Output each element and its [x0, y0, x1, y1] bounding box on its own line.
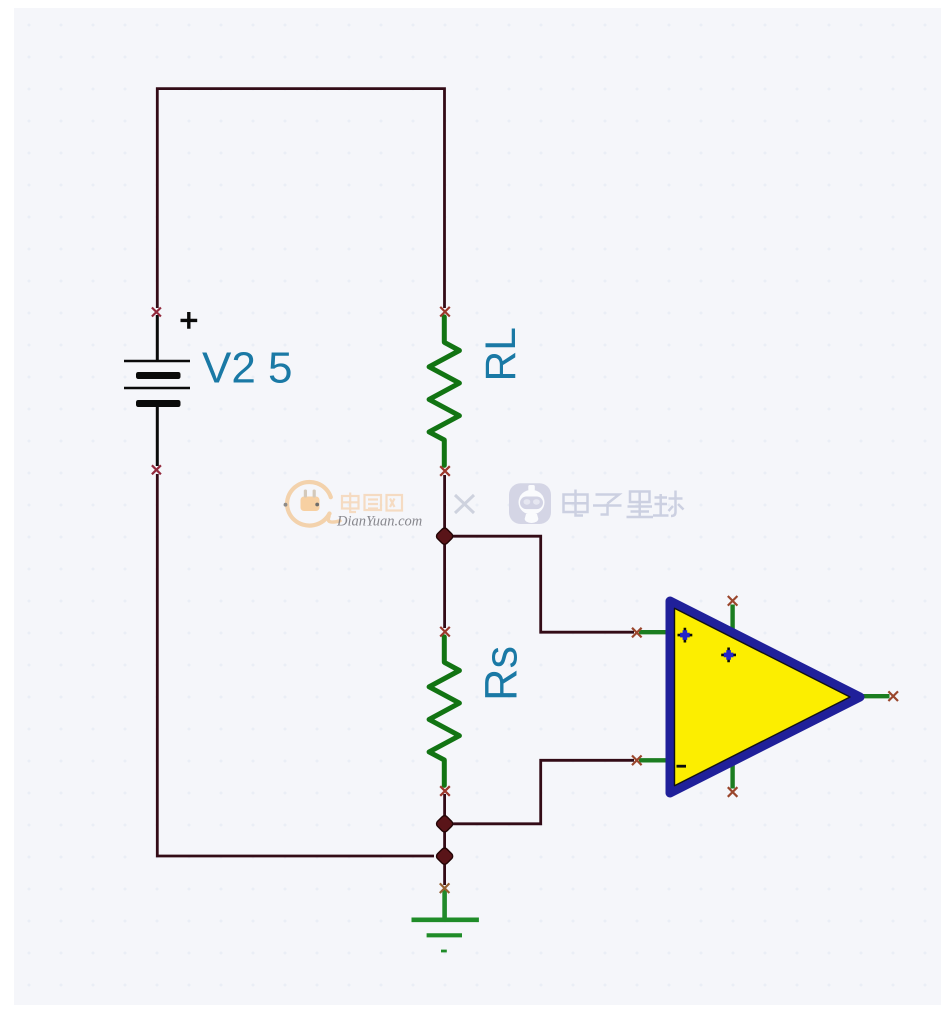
svg-text:DianYuan.com: DianYuan.com — [336, 514, 422, 530]
pin cross RL bottom — [440, 466, 450, 476]
wire: RL bottom to node A — [443, 475, 446, 536]
wire: Rs bottom to node B — [443, 794, 446, 824]
battery V2 lead top — [156, 315, 159, 361]
svg-text:V2 5: V2 5 — [202, 344, 293, 393]
pin cross op-amp top — [728, 596, 738, 606]
pin cross RL top — [440, 307, 450, 317]
resistor Rs — [429, 637, 459, 786]
pin cross op-amp + input — [632, 628, 642, 638]
node B junction dot — [435, 814, 454, 833]
watermark dianyuan plug icon — [284, 490, 320, 512]
wire: node B to node C — [443, 824, 446, 856]
battery plus sign — [181, 312, 198, 329]
wire: node A right and down to op-amp + input — [445, 536, 634, 632]
pin cross battery top — [152, 308, 161, 317]
pin cross output — [888, 691, 898, 701]
op-amp U1 pin V- bottom stub — [730, 762, 734, 789]
battery V2 lead bottom — [156, 407, 159, 466]
wire: node C down to ground — [443, 856, 446, 885]
wire: node A down to Rs top — [443, 536, 446, 628]
op-amp U1 pin + input stub — [639, 630, 669, 634]
ground bar 1 — [412, 917, 479, 922]
pin cross Rs bottom — [440, 786, 450, 796]
watermark dianzixingqiu app icon — [509, 483, 551, 524]
op-amp U1 pin V+ top stub — [730, 605, 734, 633]
op-amp U1 output stub — [860, 694, 890, 698]
watermark dianyuan chinese chars — [342, 493, 402, 513]
pin cross battery bottom — [152, 465, 161, 474]
watermark dianyuan ring — [287, 482, 340, 526]
op-amp U1 - input marker — [677, 765, 687, 768]
watermark grey cross — [455, 495, 474, 513]
op-amp U1 + input marker — [678, 628, 693, 643]
ground bar 2 — [427, 933, 462, 937]
wire: top loop (battery top to RL top) — [157, 89, 444, 308]
pin cross Rs top — [440, 627, 450, 637]
battery V2 plates — [124, 361, 190, 407]
ground bar 3 — [441, 950, 447, 953]
ground lead — [442, 889, 447, 918]
pin cross op-amp bottom — [728, 787, 738, 797]
node A junction dot — [435, 527, 454, 546]
wire: node B right and up to op-amp - input — [445, 760, 634, 824]
pin cross ground — [440, 883, 450, 893]
op-amp U1 triangle body — [670, 601, 860, 793]
op-amp U1 pin - input stub — [639, 758, 669, 762]
wire: battery bottom down and right to ground junction — [157, 474, 434, 856]
op-amp U1 inner outline — [675, 608, 851, 785]
svg-text:Rs: Rs — [476, 646, 527, 701]
op-amp U1 V+ marker — [721, 648, 736, 663]
watermark dianzixingqiu text — [564, 490, 684, 518]
resistor RL — [429, 317, 459, 466]
pin cross op-amp - input — [632, 756, 642, 766]
svg-text:RL: RL — [478, 327, 525, 381]
node C junction dot — [435, 847, 454, 866]
